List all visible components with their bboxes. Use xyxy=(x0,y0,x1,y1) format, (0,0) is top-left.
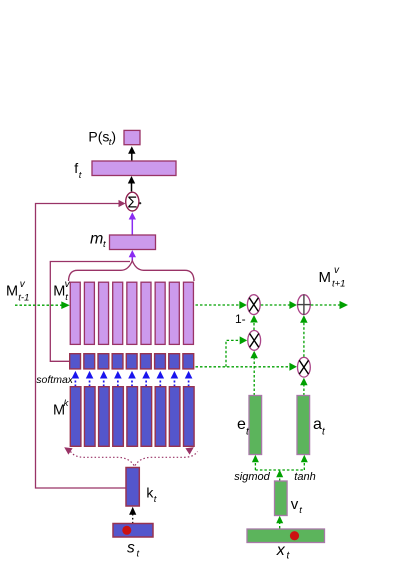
svg-text:t: t xyxy=(79,170,82,181)
svg-text:Σ: Σ xyxy=(127,195,137,212)
svg-text:t: t xyxy=(65,292,68,303)
memory value bar 9 xyxy=(183,282,193,344)
memory key bar 8 xyxy=(169,387,180,447)
svg-text:P(s: P(s xyxy=(88,129,109,145)
dotted arrow s_t to k_t xyxy=(129,507,136,524)
svg-text:t-1: t-1 xyxy=(18,293,29,304)
memory value bar 1 xyxy=(70,282,80,344)
green dashed wire weights to write gate xyxy=(196,363,297,371)
softmax arrow 2 xyxy=(86,371,94,387)
box m_t xyxy=(110,235,156,250)
attention weight cell 6 xyxy=(140,354,151,369)
memory value bar 4 xyxy=(113,282,123,344)
arrow sum to f_t xyxy=(128,176,135,192)
output box P xyxy=(124,130,140,144)
softmax arrow 6 xyxy=(142,371,150,387)
svg-text:softmax: softmax xyxy=(36,374,74,386)
memory value bar 2 xyxy=(84,282,94,344)
bar a_t xyxy=(297,396,310,455)
svg-text:x: x xyxy=(276,542,286,559)
marker dot in s_t xyxy=(122,526,131,535)
bar v_t xyxy=(275,481,288,516)
memory value bar 5 xyxy=(127,282,137,344)
attention weight cell 7 xyxy=(155,354,166,369)
memory value bar 7 xyxy=(155,282,165,344)
green dashed arrow e_t to x2 xyxy=(250,351,258,396)
attention weight cell 1 xyxy=(70,354,81,369)
memory key bar 2 xyxy=(84,387,95,447)
softmax arrow 3 xyxy=(100,371,108,387)
green dashed wire bank to erase gate row xyxy=(196,304,241,306)
arrow m_t to sum xyxy=(129,212,136,235)
box k_t xyxy=(126,468,139,507)
arrow brace cusp to m_t xyxy=(129,250,136,261)
svg-text:sigmod: sigmod xyxy=(234,471,270,483)
svg-text:): ) xyxy=(111,129,116,145)
green dashed arrow x2 to x1 xyxy=(250,315,258,330)
softmax arrow 7 xyxy=(157,371,165,387)
arrowhead bank wire into x1 xyxy=(239,301,247,309)
softmax arrow 1 xyxy=(72,371,80,387)
wire loop from weight row up left side to m_t junction xyxy=(50,262,130,362)
one-minus gate node x2 xyxy=(248,331,261,351)
write gate node x3 xyxy=(298,357,311,377)
svg-text:t: t xyxy=(137,549,140,560)
memory key bar 6 xyxy=(141,387,152,447)
svg-text:m: m xyxy=(90,231,103,248)
svg-text:v: v xyxy=(291,496,299,513)
memory key bar 1 xyxy=(70,387,81,447)
softmax arrow 4 xyxy=(114,371,122,387)
svg-text:M: M xyxy=(53,284,65,300)
attention weight cell 4 xyxy=(112,354,123,369)
wire loop from sum node left, down and to k_t xyxy=(36,204,127,489)
memory key bar 5 xyxy=(127,387,138,447)
svg-text:M: M xyxy=(319,269,332,286)
svg-text:1-: 1- xyxy=(235,312,246,326)
green arrow into e_t xyxy=(252,455,259,470)
marker dot in x_t xyxy=(290,531,299,540)
brace over memory value bank xyxy=(69,261,195,281)
green arrow v_t to split xyxy=(276,470,283,481)
dotted compare arrow right xyxy=(135,447,198,465)
arrowhead into sum node xyxy=(119,200,126,207)
softmax arrow 5 xyxy=(128,371,136,387)
bar x_t xyxy=(247,529,325,543)
memory value bar 3 xyxy=(99,282,109,344)
svg-text:tanh: tanh xyxy=(294,471,315,483)
sum node sigma xyxy=(126,192,142,211)
svg-text:a: a xyxy=(313,416,322,433)
dotted compare arrow left xyxy=(64,447,134,465)
green dashed branch weights to one-minus gate xyxy=(226,336,247,366)
svg-text:e: e xyxy=(237,416,246,433)
attention weight cell 2 xyxy=(84,354,95,369)
green arrow x_t to v_t xyxy=(276,516,283,529)
green dashed wire x1 to plus xyxy=(261,301,297,309)
green dashed output arrow Mv t+1 xyxy=(311,301,348,309)
add node plus xyxy=(297,295,310,315)
memory value bar 6 xyxy=(141,282,151,344)
arrow f_t to P box xyxy=(128,146,135,161)
erase gate node x1 xyxy=(247,295,260,315)
svg-text:t: t xyxy=(103,239,106,250)
green dashed arrow Mv t-1 into bank xyxy=(15,301,70,309)
attention weight cell 5 xyxy=(126,354,137,369)
svg-text:t: t xyxy=(299,505,302,516)
memory key bar 9 xyxy=(184,387,195,447)
memory key bar 7 xyxy=(155,387,166,447)
box s_t xyxy=(113,524,153,538)
attention weight cell 3 xyxy=(98,354,109,369)
green dashed wire sigmoid-tanh split xyxy=(255,469,304,471)
softmax arrow 9 xyxy=(185,371,193,387)
green dashed arrow x3 to plus xyxy=(300,315,308,357)
memory key bar 3 xyxy=(99,387,110,447)
svg-text:t: t xyxy=(154,494,157,505)
memory value bar 8 xyxy=(169,282,179,344)
svg-text:f: f xyxy=(74,160,78,176)
svg-text:s: s xyxy=(127,540,135,557)
svg-text:t+1: t+1 xyxy=(332,279,345,290)
bar e_t xyxy=(249,396,262,455)
attention weight cell 8 xyxy=(169,354,180,369)
green arrow into a_t xyxy=(301,455,308,470)
attention weight cell 9 xyxy=(183,354,194,369)
svg-text:M: M xyxy=(6,284,18,300)
softmax arrow 8 xyxy=(171,371,179,387)
memory key bar 4 xyxy=(113,387,124,447)
green dashed arrow a_t to x3 xyxy=(300,378,308,396)
box f_t xyxy=(92,161,176,176)
